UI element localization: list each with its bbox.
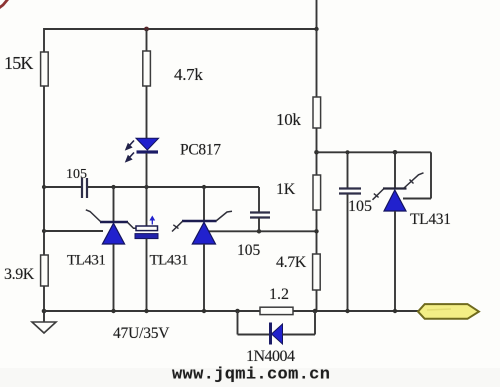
diode 1N4004 cathode bar — [269, 323, 272, 345]
wire right rail upper — [316, 29, 318, 97]
LED emission arrow 2 — [126, 153, 134, 162]
TL431 U3 cathode bar — [383, 187, 407, 189]
node bottom at cap3 — [345, 309, 349, 313]
svg-text:PC817: PC817 — [180, 142, 221, 159]
wire rail2 LED to ecap — [146, 153, 148, 226]
node y152 at TL431-3 — [393, 150, 398, 155]
wire y231 left segment — [44, 230, 103, 232]
svg-text:105: 105 — [66, 167, 87, 182]
wire feedback box bottom — [403, 198, 431, 200]
svg-text:1.2: 1.2 — [269, 286, 289, 303]
capacitor 105 (series, left) plates — [81, 178, 83, 198]
svg-text:4.7k: 4.7k — [174, 65, 203, 84]
wire left rail middle — [43, 86, 45, 255]
wire left rail upper — [43, 28, 45, 52]
capacitor C3 bottom lead — [347, 194, 349, 311]
TL431 U1 cathode bar — [100, 221, 128, 223]
capacitor C3 plates — [339, 187, 361, 189]
wire diode loop bottom right — [283, 334, 316, 336]
node bottom at diode loop left — [235, 309, 240, 314]
shunt regulator TL431 U2 cathode lead — [203, 187, 205, 221]
resistor 1K body — [313, 175, 321, 210]
node right rail y231 — [314, 229, 318, 233]
wire right rail mid2 — [316, 210, 318, 254]
TL431 U3 left ref diagonal with tick — [373, 189, 384, 200]
resistor 4.7K body — [313, 254, 321, 290]
TL431 U3 triangle — [384, 190, 406, 211]
node y231 at cap2 — [257, 229, 261, 233]
TL431 U2 triangle — [192, 222, 215, 244]
wire right rail mid1 — [316, 128, 318, 175]
TL431 U1 right zigzag to ecap — [128, 222, 138, 228]
node bottom at TL431-1 — [111, 309, 115, 313]
TL431 U2 ref diagonal with tick — [172, 221, 183, 231]
TL431 U3 anode lead — [394, 211, 396, 311]
shunt regulator TL431 U1 cathode lead — [113, 187, 115, 222]
node y152 at cap3 — [345, 150, 349, 154]
wire top rail — [44, 28, 317, 30]
node left rail at y231 — [42, 229, 46, 233]
svg-text:15K: 15K — [4, 53, 33, 73]
node bottom at ecap — [144, 309, 148, 313]
svg-text:TL431: TL431 — [410, 211, 451, 228]
resistor 15K body — [41, 52, 49, 86]
wire bottom rail right — [293, 310, 418, 312]
wire rail2 below ecap — [146, 239, 148, 311]
capacitor 105 (C2 mid) top lead — [258, 187, 260, 212]
wire y231 right segment — [209, 230, 317, 232]
electrolytic capacitor bottom plate — [135, 234, 158, 239]
electrolytic capacitor top plate — [136, 226, 158, 231]
ground — [32, 322, 56, 333]
wire left rail lower to ground — [43, 286, 45, 322]
svg-text:3.9K: 3.9K — [4, 266, 35, 283]
node y187 at TL431-1 — [111, 185, 115, 189]
LED emission arrow 1 — [126, 141, 134, 150]
TL431 U2 anode lead — [203, 244, 205, 311]
wire top vertical into top rail — [316, 0, 318, 29]
wire feedback box right vertical — [430, 152, 432, 198]
resistor 1.2 body (horizontal) — [260, 307, 293, 314]
svg-text:1K: 1K — [276, 181, 296, 198]
capacitor C2 bottom lead — [258, 218, 260, 231]
svg-text:TL431: TL431 — [150, 253, 188, 269]
red corner mark — [0, 0, 8, 8]
capacitor 105 (C3 right) top lead — [347, 152, 349, 188]
TL431 U1 anode lead — [113, 244, 115, 311]
wire diode loop right vertical — [314, 311, 316, 335]
diode 1N4004 triangle — [272, 324, 283, 344]
node bottom at loop right — [313, 309, 318, 314]
svg-text:105: 105 — [237, 242, 261, 259]
wire y152 horizontal — [317, 151, 432, 153]
node bottom at TL431-3 — [393, 309, 397, 313]
TL431 U2 cathode bar — [182, 220, 217, 222]
svg-text:10k: 10k — [276, 110, 301, 129]
resistor 4.7k body — [143, 51, 151, 86]
node left rail at y187 — [42, 185, 46, 189]
wire y187 right segment — [88, 186, 259, 188]
TL431 U1 ref diagonal — [86, 210, 101, 222]
node y187 at TL431-2 — [202, 185, 206, 189]
node top-mid junction — [144, 27, 149, 32]
wire y187 left segment — [44, 186, 81, 188]
node top-right junction — [314, 27, 318, 31]
wire bottom rail left — [44, 310, 260, 312]
wire rail2 top (4.7k column) — [146, 29, 148, 51]
LED of optocoupler PC817 (triangle) — [136, 138, 159, 150]
node rail2 at y187 — [144, 185, 148, 189]
svg-text:4.7K: 4.7K — [276, 254, 307, 271]
wire diode loop bottom left — [238, 334, 271, 336]
svg-text:105: 105 — [348, 198, 372, 215]
LED cathode bar — [137, 150, 159, 153]
resistor 10k body — [313, 97, 321, 128]
node right rail y152 — [314, 150, 319, 155]
wire right rail lower — [316, 290, 318, 311]
wire diode loop left vertical — [237, 311, 239, 335]
TL431 U2 right zigzag — [216, 211, 232, 221]
resistor 3.9K body — [41, 255, 49, 286]
svg-text:1N4004: 1N4004 — [246, 348, 295, 365]
TL431 U1 triangle — [102, 223, 124, 244]
node left rail bottom junction — [42, 309, 47, 314]
output tag (yellow pointer) — [418, 304, 479, 319]
TL431 U3 right diagonal with tick — [404, 173, 424, 188]
capacitor C2 plates — [250, 211, 270, 213]
svg-text:www.jqmi.com.cn: www.jqmi.com.cn — [172, 366, 330, 385]
svg-text:TL431: TL431 — [67, 253, 105, 269]
electrolytic capacitor 47U/35V plus mark — [149, 216, 155, 221]
node bottom at TL431-2 — [202, 309, 206, 313]
svg-text:47U/35V: 47U/35V — [113, 325, 170, 342]
wire rail2 between resistor and LED — [146, 86, 148, 139]
shunt regulator TL431 U3 cathode lead — [394, 152, 396, 188]
